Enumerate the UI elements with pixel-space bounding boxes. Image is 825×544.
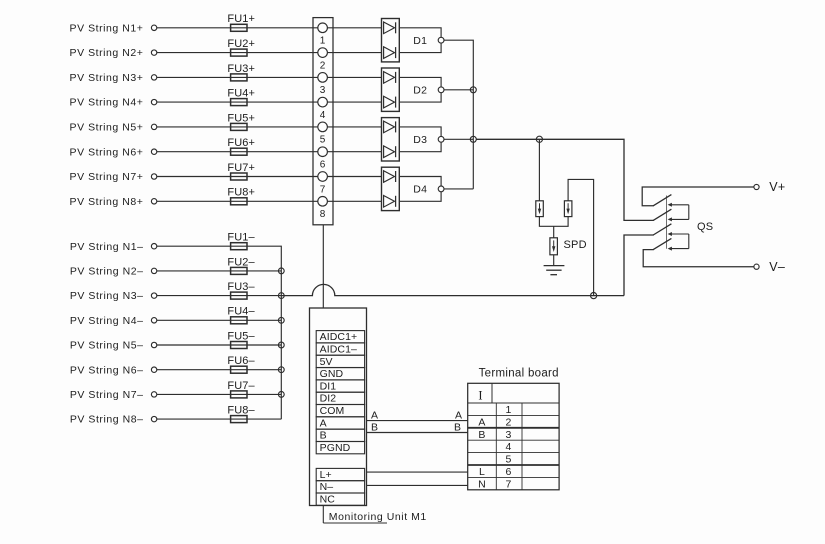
fuse FU5+ <box>231 123 247 130</box>
fuse FU6- <box>231 366 247 373</box>
terminal block contact 1 <box>318 23 328 33</box>
wire row N6- to minus bus <box>157 369 281 371</box>
wire varistor 2 to minus bus <box>568 179 594 295</box>
svg-text:5: 5 <box>505 454 511 466</box>
svg-text:DI1: DI1 <box>320 380 337 392</box>
terminal PV String N3- <box>151 293 156 298</box>
svg-text:A: A <box>478 416 485 428</box>
svg-text:PV String N3+: PV String N3+ <box>70 72 144 84</box>
switch QS contact 2 <box>668 217 689 221</box>
svg-text:Terminal board: Terminal board <box>479 368 559 380</box>
svg-text:SPD: SPD <box>564 239 587 251</box>
terminal PV String N7- <box>151 392 156 397</box>
svg-text:V–: V– <box>769 260 785 274</box>
svg-text:FU3+: FU3+ <box>227 63 255 75</box>
wire row N5- to minus bus <box>157 344 281 346</box>
svg-text:PV String N3–: PV String N3– <box>70 290 144 302</box>
fuse FU2+ <box>231 49 247 56</box>
node D2 output <box>438 87 444 93</box>
wire SPD common <box>553 226 555 238</box>
terminal PV String N7+ <box>151 174 156 179</box>
wire terminal block to monitoring unit <box>322 225 324 308</box>
wire row N2+ <box>157 52 382 54</box>
node plus bus at D2 <box>470 87 476 93</box>
wire row N4+ <box>157 101 382 103</box>
fuse FU3- <box>231 292 247 299</box>
wire minus line with crossover hop <box>281 284 624 295</box>
svg-text:FU3–: FU3– <box>227 281 255 293</box>
node D4 output <box>438 186 444 192</box>
terminal PV String N5- <box>151 342 156 347</box>
node minus bus row N3- <box>278 293 284 299</box>
svg-text:PV String N7+: PV String N7+ <box>70 171 144 183</box>
wire QS to V+ terminal <box>642 187 754 206</box>
wire QS link contacts 3-4 <box>688 234 690 249</box>
svg-text:D4: D4 <box>413 184 427 196</box>
svg-text:Monitoring Unit M1: Monitoring Unit M1 <box>329 511 427 523</box>
svg-text:B: B <box>478 429 485 441</box>
wire D4 output to plus bus <box>444 188 473 190</box>
svg-text:1: 1 <box>320 36 326 47</box>
wire power L <box>367 471 468 473</box>
switch QS contact 3 <box>668 232 689 236</box>
wire row N8- to minus bus <box>157 418 281 420</box>
wire D2 output to node <box>399 77 441 86</box>
wire power N <box>367 484 468 486</box>
monitoring unit pin cell AIDC1+ <box>316 331 364 344</box>
wire D3 output to plus bus <box>444 138 473 140</box>
wire row N1+ <box>157 27 382 29</box>
svg-text:3: 3 <box>320 85 326 96</box>
svg-text:D2: D2 <box>413 85 427 97</box>
svg-text:N: N <box>478 478 486 490</box>
switch QS blade 2 <box>653 209 671 220</box>
terminal PV String N1- <box>151 244 156 249</box>
terminal PV String N2- <box>151 268 156 273</box>
terminal block contact 7 <box>318 172 328 182</box>
svg-text:B: B <box>454 422 461 434</box>
terminal block contact 5 <box>318 122 328 132</box>
svg-text:GND: GND <box>320 368 344 380</box>
terminal block contact 8 <box>318 197 328 207</box>
wire D1 output to node <box>399 28 441 38</box>
svg-text:7: 7 <box>505 478 511 490</box>
node minus bus row N6- <box>278 367 284 373</box>
fuse FU8+ <box>231 198 247 205</box>
svg-text:5V: 5V <box>320 356 333 368</box>
switch QS blade 4 <box>653 238 671 249</box>
diode pair D4 <box>382 167 400 210</box>
monitoring unit pin cell N- <box>316 481 364 494</box>
wire D4 output to node <box>399 177 441 187</box>
svg-text:PV String N5–: PV String N5– <box>70 340 144 352</box>
terminal block contact 4 <box>318 97 328 107</box>
fuse FU4+ <box>231 99 247 106</box>
svg-text:PGND: PGND <box>320 442 351 454</box>
svg-text:FU5–: FU5– <box>227 330 255 342</box>
terminal PV String N1+ <box>151 25 156 30</box>
svg-text:A: A <box>371 410 378 422</box>
svg-text:PV String N8–: PV String N8– <box>70 414 144 426</box>
terminal block <box>313 18 333 225</box>
fuse FU1- <box>231 243 247 250</box>
svg-text:FU2–: FU2– <box>227 256 255 268</box>
node minus bus row N4- <box>278 317 284 323</box>
svg-text:A: A <box>320 417 327 429</box>
svg-text:FU1+: FU1+ <box>227 13 255 25</box>
wire minus line to switch QS <box>624 235 654 296</box>
svg-text:PV String N7–: PV String N7– <box>70 389 144 401</box>
svg-text:FU2+: FU2+ <box>227 38 255 50</box>
monitoring unit pin cell COM <box>316 405 364 418</box>
ground <box>544 266 565 275</box>
node SPD minus tap <box>591 293 597 299</box>
svg-text:AIDC1–: AIDC1– <box>320 343 357 355</box>
svg-text:I: I <box>478 389 482 403</box>
fuse FU2- <box>231 267 247 274</box>
monitoring unit pin cell 5V <box>316 355 364 368</box>
fuse FU6+ <box>231 148 247 155</box>
svg-text:1: 1 <box>505 404 511 416</box>
svg-text:L: L <box>479 466 485 478</box>
wire row N4- to minus bus <box>157 319 281 321</box>
svg-text:3: 3 <box>505 429 511 441</box>
svg-text:PV String N6–: PV String N6– <box>70 364 144 376</box>
svg-text:4: 4 <box>505 441 511 453</box>
fuse FU4- <box>231 317 247 324</box>
diode pair D1 <box>382 19 400 62</box>
switch QS blade 1 <box>653 195 671 206</box>
terminal V+ <box>754 184 759 189</box>
monitoring unit pin cell AIDC1- <box>316 343 364 356</box>
svg-text:8: 8 <box>320 209 326 220</box>
terminal block contact 3 <box>318 73 328 83</box>
wire D1 output to plus bus <box>444 40 473 189</box>
wire row N3- to minus bus <box>157 295 281 297</box>
svg-text:PV String N4–: PV String N4– <box>70 315 144 327</box>
terminal PV String N3+ <box>151 75 156 80</box>
wire row N3+ <box>157 76 382 78</box>
wire main plus line to switch QS <box>476 139 654 220</box>
svg-text:FU7+: FU7+ <box>227 162 255 174</box>
svg-text:COM: COM <box>320 405 345 417</box>
wire D2 output to plus bus <box>444 89 473 91</box>
wire RS485 B <box>367 432 468 434</box>
svg-text:FU6–: FU6– <box>227 355 255 367</box>
wire SPD varistor 1 feed <box>538 139 540 201</box>
monitoring unit pin cell NC <box>316 493 364 506</box>
wire RS485 A <box>367 420 468 422</box>
terminal PV String N6+ <box>151 149 156 154</box>
svg-text:NC: NC <box>320 494 336 506</box>
svg-text:5: 5 <box>320 135 326 146</box>
svg-text:FU7–: FU7– <box>227 380 255 392</box>
svg-text:QS: QS <box>697 221 713 233</box>
monitoring unit pin cell PGND <box>316 442 364 455</box>
svg-text:V+: V+ <box>769 180 785 194</box>
terminal PV String N4+ <box>151 99 156 104</box>
svg-text:6: 6 <box>320 160 326 171</box>
svg-text:FU1–: FU1– <box>227 232 255 244</box>
switch QS contact 1 <box>668 203 689 207</box>
svg-text:D3: D3 <box>413 134 427 146</box>
svg-text:FU4–: FU4– <box>227 306 255 318</box>
svg-text:FU4+: FU4+ <box>227 88 255 100</box>
fuse FU5- <box>231 342 247 349</box>
svg-text:PV String N2–: PV String N2– <box>70 266 144 278</box>
svg-text:PV String N1–: PV String N1– <box>70 241 144 253</box>
terminal block contact 6 <box>318 147 328 157</box>
wire row N2- to minus bus <box>157 270 281 272</box>
node plus bus at D3 <box>470 136 476 142</box>
svg-text:PV String N4+: PV String N4+ <box>70 97 144 109</box>
fuse FU3+ <box>231 74 247 81</box>
svg-text:FU8–: FU8– <box>227 405 255 417</box>
switch QS blade coupling link <box>665 196 667 249</box>
terminal PV String N5+ <box>151 124 156 129</box>
fuse FU7- <box>231 391 247 398</box>
svg-text:A: A <box>455 410 462 422</box>
monitoring unit pin cell A <box>316 417 364 430</box>
node minus bus row N2- <box>278 268 284 274</box>
terminal board table <box>468 383 559 490</box>
svg-text:PV String N2+: PV String N2+ <box>70 47 144 59</box>
varistor RV2 <box>564 201 572 217</box>
monitoring unit pin cell DI2 <box>316 392 364 405</box>
node D1 output <box>438 37 444 43</box>
switch QS blade 3 <box>653 224 671 235</box>
wire SPD to ground <box>553 255 555 266</box>
svg-text:2: 2 <box>505 416 511 428</box>
svg-text:N–: N– <box>320 481 334 493</box>
terminal PV String N4- <box>151 318 156 323</box>
svg-text:D1: D1 <box>413 35 427 47</box>
node D3 output <box>438 136 444 142</box>
svg-text:PV String N6+: PV String N6+ <box>70 146 144 158</box>
fuse FU7+ <box>231 173 247 180</box>
wire QS to V- terminal <box>643 250 754 267</box>
svg-text:2: 2 <box>320 60 326 71</box>
fuse FU8- <box>231 416 247 423</box>
svg-text:7: 7 <box>320 184 326 195</box>
wire row N1- and minus bus <box>157 246 281 419</box>
monitoring unit pin cell B <box>316 429 364 442</box>
monitoring unit M1 enclosure <box>310 308 367 506</box>
diode pair D3 <box>382 118 400 161</box>
svg-text:PV String N5+: PV String N5+ <box>70 122 144 134</box>
monitoring unit pin cell DI1 <box>316 380 364 393</box>
svg-text:FU6+: FU6+ <box>227 137 255 149</box>
svg-text:B: B <box>371 422 378 434</box>
label Monitoring Unit M1 <box>323 506 427 524</box>
svg-text:L+: L+ <box>320 469 332 481</box>
svg-text:PV String N1+: PV String N1+ <box>70 22 144 34</box>
node minus bus row N7- <box>278 392 284 398</box>
svg-text:AIDC1+: AIDC1+ <box>320 331 358 343</box>
terminal block contact 2 <box>318 48 328 58</box>
wire row N7+ <box>157 176 382 178</box>
node SPD plus tap <box>536 136 542 142</box>
terminal PV String N2+ <box>151 50 156 55</box>
wire QS link contacts 1-2 <box>688 205 690 220</box>
svg-text:PV String N8+: PV String N8+ <box>70 196 144 208</box>
monitoring unit pin cell GND <box>316 368 364 381</box>
node minus bus row N5- <box>278 342 284 348</box>
wire row N7- to minus bus <box>157 393 281 395</box>
varistor RV1 <box>536 201 544 217</box>
svg-text:4: 4 <box>320 110 326 121</box>
diode pair D2 <box>382 68 400 111</box>
wire row N8+ <box>157 200 382 202</box>
svg-text:B: B <box>320 430 327 442</box>
svg-text:6: 6 <box>505 466 511 478</box>
wire varistor bottoms join <box>539 217 568 227</box>
svg-text:DI2: DI2 <box>320 393 337 405</box>
wire row N6+ <box>157 151 382 153</box>
svg-text:FU5+: FU5+ <box>227 112 255 124</box>
surge protector SPD <box>550 238 558 255</box>
monitoring unit pin cell L+ <box>316 468 364 481</box>
terminal V- <box>754 264 759 269</box>
switch QS contact 4 <box>668 247 689 251</box>
svg-text:FU8+: FU8+ <box>227 187 255 199</box>
fuse FU1+ <box>231 24 247 31</box>
terminal PV String N6- <box>151 367 156 372</box>
wire row N5+ <box>157 126 382 128</box>
terminal PV String N8+ <box>151 199 156 204</box>
terminal PV String N8- <box>151 416 156 421</box>
wire D3 output to node <box>399 127 441 136</box>
